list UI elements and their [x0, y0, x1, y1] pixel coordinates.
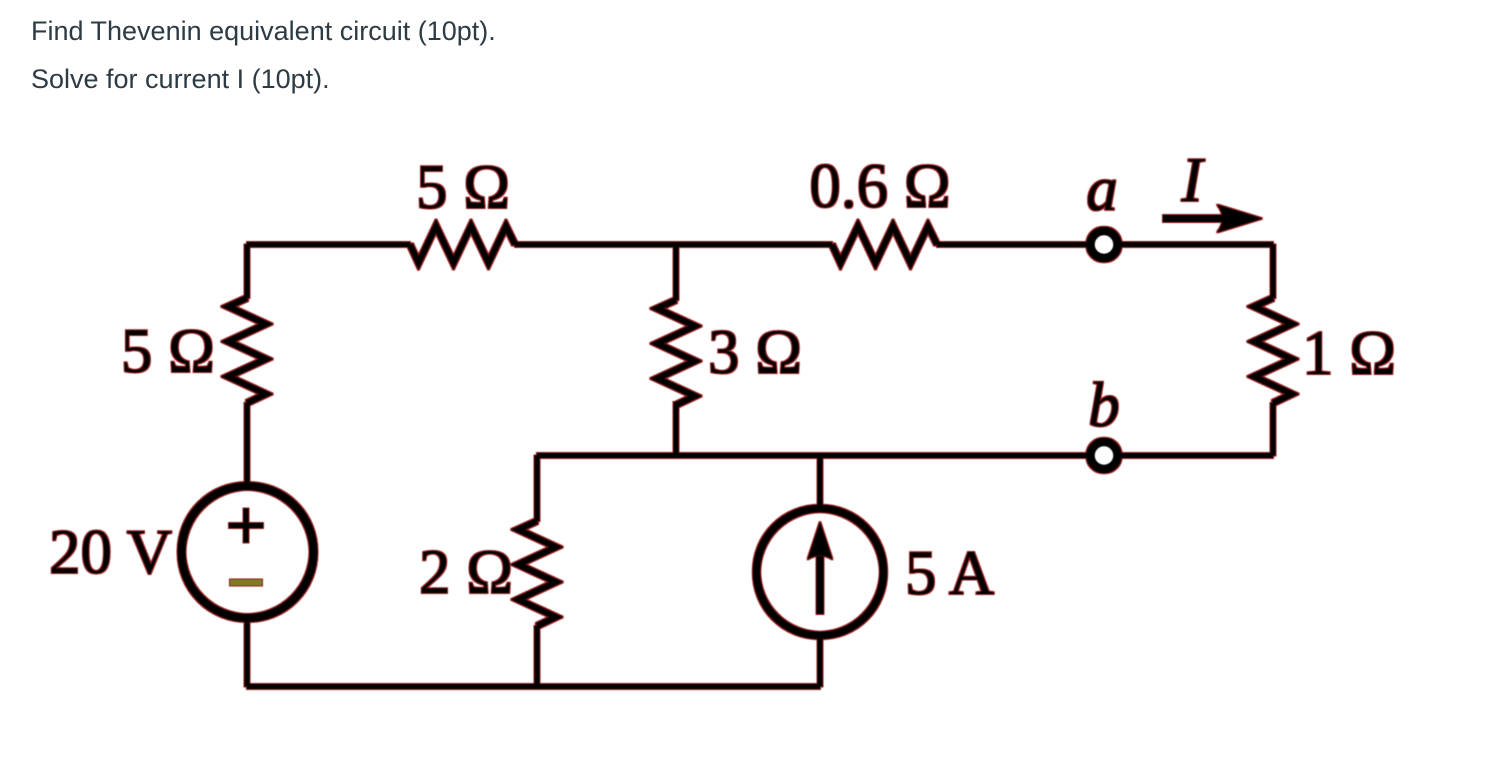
svg-text:5 A: 5 A [905, 538, 995, 608]
svg-text:a: a [1086, 154, 1118, 224]
svg-text:1 Ω: 1 Ω [1302, 318, 1396, 388]
svg-text:0.6 Ω: 0.6 Ω [809, 151, 950, 221]
svg-text:b: b [1088, 370, 1120, 440]
svg-text:5 Ω: 5 Ω [121, 316, 215, 386]
svg-text:20 V: 20 V [49, 517, 172, 587]
svg-text:3 Ω: 3 Ω [708, 317, 802, 387]
svg-text:I: I [1181, 145, 1206, 215]
svg-text:5 Ω: 5 Ω [416, 152, 510, 222]
svg-text:2 Ω: 2 Ω [419, 537, 513, 607]
